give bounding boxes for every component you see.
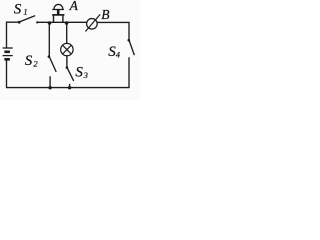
- label S4: [108, 44, 121, 60]
- switch S4 blade (open, swung down-right): [129, 41, 134, 55]
- lamp L (circle with X): [61, 43, 73, 55]
- wire: lower contact of S3 to bottom wire: [69, 84, 71, 88]
- switch S1 hinge dot: [18, 21, 21, 24]
- switch S1 blade (open, tilted up-right): [19, 16, 35, 22]
- svg-text:S: S: [75, 64, 83, 80]
- switch S4 hinge dot: [128, 39, 131, 42]
- svg-text:S: S: [14, 1, 22, 17]
- svg-text:2: 2: [33, 58, 38, 68]
- svg-text:1: 1: [23, 6, 27, 16]
- svg-text:4: 4: [116, 49, 121, 59]
- switch S3 blade (open, swung down-right): [68, 68, 74, 81]
- label S3: [75, 64, 87, 80]
- wire: right side below S4 to bottom-right corner: [128, 57, 130, 88]
- wire: top run from S1 fixed contact to bell B circle: [37, 21, 87, 23]
- wire: lamp bottom to switch S3 hinge: [66, 56, 68, 67]
- switch S1 fixed contact dot: [36, 21, 38, 23]
- switch S3 hinge dot: [66, 66, 69, 69]
- junction node bottom of S3 branch: [68, 86, 71, 89]
- switch S2 blade (open, swung down-right): [50, 57, 57, 72]
- label S1: [14, 1, 28, 17]
- wire: left side + top-left corner to switch S1 hinge: [7, 22, 20, 48]
- label S2: [25, 53, 39, 69]
- svg-text:B: B: [101, 7, 109, 22]
- battery (two cells): [3, 48, 13, 59]
- wire: branch from node P1 down to switch S2: [48, 23, 50, 56]
- wire: bottom return run: [6, 87, 130, 89]
- junction node P1 (bell left terminal / S2 branch): [48, 21, 52, 25]
- wire: branch from node P2 down to lamp: [66, 23, 68, 44]
- switch S2 hinge dot: [48, 55, 51, 58]
- electric bell A (dome on stand over top wire): [52, 4, 64, 22]
- wire: lower contact of S2 to bottom wire: [49, 76, 51, 87]
- svg-text:S: S: [25, 53, 33, 69]
- junction node P2 (bell right terminal / lamp branch): [65, 21, 69, 25]
- wire: top run from circle B to top-right corner, down to S4: [97, 22, 129, 39]
- bell/buzzer B (circle with diagonal striker): [85, 14, 100, 31]
- wire: left side below battery: [6, 60, 8, 87]
- svg-text:3: 3: [83, 70, 88, 80]
- junction node bottom of S2 branch: [48, 86, 51, 89]
- svg-text:A: A: [69, 0, 79, 13]
